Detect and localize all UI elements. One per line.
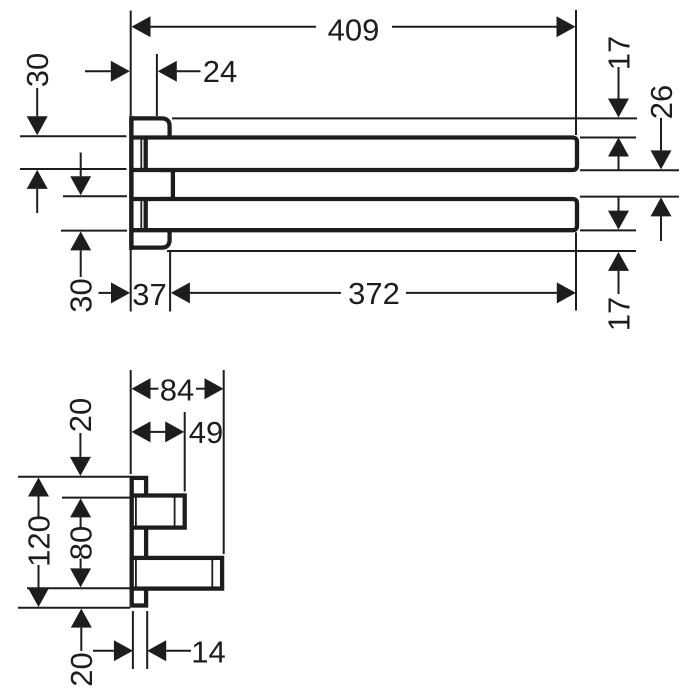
svg-text:20: 20 [63, 398, 98, 432]
dimension 80 lower tail [80, 559, 82, 569]
dimension 24 left arrow [111, 61, 130, 82]
bar 2 (lower arm, front view) [133, 199, 578, 230]
dimension 14 right extension line [146, 611, 148, 669]
dimension 14 tail [93, 650, 114, 652]
extension line arm1 end (x=184.7) [184, 412, 186, 492]
arm 2 (side view) [132, 558, 222, 589]
dimension 409 line left segment [151, 26, 317, 28]
dimension 20 bottom leader [80, 628, 82, 651]
line L1 bar1-top extended left [20, 135, 127, 137]
arm 2 inner left line [135, 560, 137, 587]
dimension 372 line left segment [190, 292, 341, 294]
line L4 bar2-bottom extended left [61, 230, 127, 232]
line L2 bar1-bottom extended left [20, 168, 127, 170]
dimension 84 right arrow [205, 378, 224, 399]
extension line arm2 end (x=223.7) [223, 370, 225, 554]
dimension 26 up-arrow tail [660, 216, 662, 241]
dimension 84 line right segment [196, 388, 205, 390]
bar 1 inner thin line [140, 140, 142, 169]
svg-text:37: 37 [132, 277, 166, 312]
dimension 372 left arrow [171, 282, 190, 303]
dimension 120 up arrow [28, 478, 49, 497]
svg-text:80: 80 [63, 526, 98, 560]
bar 1 pivot post edge [144, 137, 148, 170]
svg-text:17: 17 [601, 36, 636, 70]
arm 1 (side view) [132, 496, 185, 528]
dimension 17 top up-arrow tail [618, 157, 620, 171]
bar 2 pivot post edge [144, 199, 148, 231]
svg-text:30: 30 [64, 278, 99, 312]
dimension 372 right arrow [557, 282, 576, 303]
extension line plate-right (x=170.1) [169, 252, 171, 312]
svg-text:49: 49 [189, 415, 223, 450]
arm 2 end cap line [211, 560, 213, 587]
svg-text:14: 14 [191, 634, 225, 669]
line A plate-top extended right [172, 117, 637, 119]
dimension 20 top down arrow [70, 457, 91, 476]
dimension 14 left extension line [132, 611, 134, 669]
dimension 120 down arrow [28, 588, 49, 607]
wall plate (side view) [132, 478, 146, 606]
extension line right (x=576) top segment [575, 10, 577, 135]
dimension 26 leader [660, 118, 662, 150]
dimension 14 right arrow [147, 640, 166, 661]
extension line left (x=130.7) top segment [130, 11, 132, 117]
wall plate (front view) [131, 118, 169, 247]
dimension 24 leader [177, 70, 201, 72]
dimension 409 right arrow [557, 16, 576, 37]
dimension 17 top down arrow [608, 99, 629, 118]
svg-text:20: 20 [64, 652, 99, 686]
svg-text:409: 409 [328, 12, 380, 47]
dimension 17 bottom down arrow [608, 211, 629, 230]
dimension 120 lower tail [38, 565, 40, 588]
wall plate left edge re-stroke [129, 116, 133, 249]
plate-top extension line [18, 476, 130, 478]
extension line mid (x=156.9) [156, 54, 158, 116]
dimension 30 mid up arrow [70, 231, 91, 250]
dimension 20 top leader [79, 433, 81, 457]
dimension 20 bottom up arrow [71, 609, 92, 628]
dimension 30 mid up-arrow tail [80, 250, 82, 277]
dimension 49 line [151, 431, 166, 433]
dimension 24 tail [85, 70, 111, 72]
dimension 80 up arrow [70, 498, 91, 517]
dimension 49 left arrow [132, 421, 151, 442]
svg-text:17: 17 [601, 297, 636, 331]
dimension 30 top up arrow [27, 170, 48, 189]
svg-text:26: 26 [644, 85, 679, 119]
line C bar1-bottom extended right [580, 169, 679, 171]
arm2-bottom extension line [27, 587, 130, 589]
dimension 37 left arrow [111, 282, 130, 303]
line B bar1-top extended right [580, 137, 636, 139]
dimension 17 bottom up-arrow tail [618, 271, 620, 294]
dimension 84 left arrow [132, 378, 151, 399]
dimension 120 upper tail [38, 497, 40, 518]
svg-text:24: 24 [203, 54, 237, 89]
dimension 84 line left segment [151, 388, 159, 390]
svg-text:120: 120 [21, 515, 56, 567]
svg-text:372: 372 [348, 276, 400, 311]
svg-text:30: 30 [20, 53, 55, 87]
dimension 24 right arrow [158, 61, 177, 82]
arm 1 end cap line [174, 497, 176, 525]
dimension 14 left arrow [114, 640, 133, 661]
dimension 17 top up arrow [608, 138, 629, 157]
extension line left bottom segment [130, 249, 132, 312]
dimension 30 top leader [36, 88, 38, 116]
extension line right bottom segment [575, 232, 577, 310]
bar 2 inner thin line [140, 201, 142, 228]
dimension 17 bottom up arrow [608, 252, 629, 271]
arm1-top extension line [62, 497, 130, 499]
svg-text:84: 84 [160, 373, 194, 408]
dimension 14 leader [166, 650, 191, 652]
dimension 372 line right segment [406, 292, 557, 294]
dimension 80 upper tail [80, 517, 82, 527]
dimension 30 mid down arrow [70, 176, 91, 195]
plate-bottom extension line [18, 607, 130, 609]
dimension 409 line right segment [392, 26, 557, 28]
line D bar2-top extended right [580, 196, 679, 198]
dimension 26 up arrow [651, 197, 672, 216]
dimension 80 down arrow [70, 568, 91, 587]
dimension 30 mid down-arrow tail [80, 153, 82, 177]
dimension 49 right arrow [165, 421, 184, 442]
bar 1 (upper arm, front view) [133, 138, 578, 171]
dimension 30 top down arrow [27, 116, 48, 135]
dimension 409 left arrow [132, 16, 151, 37]
dimension 37 tail [99, 292, 112, 294]
line L3 bar2-top extended left [63, 195, 127, 197]
dimension 30 top up-arrow tail [36, 189, 38, 213]
arm 1 inner left line [135, 497, 137, 525]
dimension 17 bottom down-arrow tail [618, 197, 620, 212]
line F plate-bottom extended right [167, 250, 636, 252]
dimension 17 top leader [618, 67, 620, 99]
extension line wall (x=130.7) [130, 370, 132, 474]
pivot block bump between bars [160, 170, 173, 199]
line E bar2-bottom extended right [580, 229, 636, 231]
dimension 26 down arrow [651, 150, 672, 169]
